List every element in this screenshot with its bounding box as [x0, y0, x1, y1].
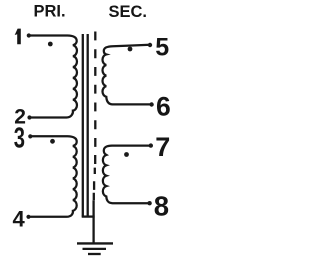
- svg-text:7: 7: [155, 132, 170, 162]
- svg-text:SEC.: SEC.: [109, 3, 148, 21]
- svg-text:8: 8: [154, 191, 169, 222]
- svg-text:PRI.: PRI.: [34, 2, 66, 20]
- svg-text:5: 5: [155, 34, 169, 62]
- svg-text:6: 6: [156, 91, 171, 121]
- svg-text:4: 4: [13, 207, 26, 232]
- svg-text:3: 3: [14, 123, 25, 154]
